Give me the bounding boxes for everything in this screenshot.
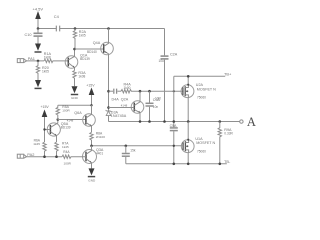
svg-text:4148: 4148: [67, 118, 74, 122]
MOSFET U2A lower: [181, 140, 194, 153]
svg-text:+15V: +15V: [86, 83, 95, 87]
transistor Q4A: [101, 42, 114, 55]
svg-text:R4A: R4A: [63, 150, 70, 154]
svg-text:+4.5V: +4.5V: [33, 7, 44, 12]
capacitor C6A: [149, 91, 151, 102]
ground arrow below C10: [35, 44, 41, 51]
wire input: [27, 60, 44, 62]
resistor R8A: [90, 132, 93, 146]
transistor Q6A: [83, 114, 96, 127]
node R7A bottom junction: [55, 155, 58, 158]
node Q1A collector junction: [73, 48, 76, 51]
zener D3A: [106, 110, 112, 112]
svg-text:D4A: D4A: [112, 97, 120, 101]
wire to Q4A base: [75, 48, 104, 50]
capacitor C2A: [161, 55, 169, 57]
svg-text:MOSFET N: MOSFET N: [196, 141, 215, 145]
resistor R5A: [56, 105, 59, 119]
transistor Q3A: [83, 150, 97, 164]
svg-text:10u: 10u: [159, 59, 165, 63]
power +V lift arrow: [89, 88, 95, 96]
node C6A top junction: [148, 90, 151, 93]
svg-text:+15V: +15V: [41, 105, 50, 109]
transistor Q1A: [65, 56, 78, 69]
svg-text:100R: 100R: [62, 108, 70, 112]
transistor Q5A: [47, 123, 60, 136]
svg-text:100R: 100R: [64, 162, 72, 166]
svg-text:GND: GND: [71, 96, 79, 100]
svg-text:TB+: TB+: [224, 71, 232, 76]
svg-text:Q4A: Q4A: [93, 41, 101, 45]
resistor R4A: [121, 90, 184, 93]
svg-text:BD140: BD140: [87, 50, 97, 54]
resistor R7A: [55, 142, 58, 157]
wire bottom-left rail: [27, 156, 62, 158]
svg-text:4401: 4401: [96, 151, 103, 155]
svg-text:C10: C10: [25, 33, 32, 37]
resistor R2A: [73, 29, 76, 50]
node gate-line left junction: [107, 90, 110, 93]
wire gate line: [109, 90, 114, 92]
svg-text:Q2A: Q2A: [121, 97, 129, 101]
svg-text:PA2: PA2: [27, 152, 34, 157]
wire top rail: [38, 28, 165, 30]
svg-text:C5A: C5A: [170, 124, 177, 128]
svg-text:1k00: 1k00: [124, 86, 131, 90]
svg-text:U2A: U2A: [196, 83, 204, 87]
svg-text:1k08: 1k08: [44, 55, 51, 59]
svg-text:2N100: 2N100: [96, 135, 105, 139]
svg-text:1k45: 1k45: [62, 145, 69, 149]
ground arrow below Q3A: [89, 168, 95, 175]
node C7A tap junction: [125, 145, 128, 148]
svg-text:TB-: TB-: [224, 159, 231, 164]
ground arrow below R3A: [72, 86, 78, 93]
transistor Q2A: [131, 101, 144, 114]
svg-text:0.33R: 0.33R: [224, 132, 233, 136]
wire output rail corner: [109, 121, 240, 123]
node output rail junctions: [139, 120, 142, 123]
svg-text:1k05: 1k05: [79, 34, 86, 38]
svg-text:75060: 75060: [197, 95, 206, 99]
svg-text:MOSFET N: MOSFET N: [197, 88, 216, 92]
svg-text:A: A: [247, 115, 256, 129]
node rail R2A junction: [74, 27, 77, 30]
resistor R1A: [44, 59, 68, 62]
node bottom rail junctions: [173, 163, 176, 166]
power +V top-left arrow: [37, 19, 39, 29]
node U1A drain junction: [187, 75, 190, 78]
input connector J1: [17, 59, 23, 63]
capacitor C10: [37, 29, 39, 33]
terminal A: [240, 120, 243, 123]
node Q2A base junction: [107, 106, 110, 109]
svg-text:4148: 4148: [121, 104, 128, 108]
svg-text:GND: GND: [88, 179, 96, 183]
svg-text:BD139: BD139: [80, 57, 90, 61]
svg-text:Q6A: Q6A: [74, 111, 82, 115]
node R6A bottom junction: [43, 155, 46, 158]
svg-text:PA1: PA1: [28, 56, 35, 61]
ground arrow below R20: [35, 80, 41, 87]
wire x174 vertical: [173, 76, 175, 127]
capacitor C7A: [125, 146, 127, 153]
MOSFET U1A upper: [181, 85, 194, 98]
svg-text:75060: 75060: [197, 149, 206, 153]
svg-text:C2A: C2A: [170, 52, 178, 56]
resistor R6A: [43, 142, 46, 157]
node Q6A emitter junction: [90, 145, 93, 148]
node x174 gate junction: [173, 90, 175, 92]
resistor R4A horizontal: [62, 155, 86, 158]
capacitor C4 in top rail: [56, 26, 59, 32]
wire lower gate line: [92, 145, 184, 147]
svg-text:1k45: 1k45: [33, 142, 40, 146]
node QB emitter junction: [107, 27, 110, 30]
resistor R3A: [73, 71, 76, 87]
svg-text:15k: 15k: [130, 148, 136, 152]
svg-text:10R: 10R: [155, 97, 162, 101]
node input junction: [37, 60, 40, 63]
resistor R20: [36, 61, 39, 80]
svg-text:1k05: 1k05: [42, 70, 49, 74]
wire to Q6A base: [58, 119, 86, 121]
capacitor C5A: [170, 127, 178, 129]
wire +rail upper right: [174, 75, 225, 77]
svg-text:BD139: BD139: [61, 126, 71, 130]
svg-text:10n: 10n: [153, 105, 159, 109]
svg-text:1k08: 1k08: [78, 74, 85, 78]
node Q5A collector junction: [57, 118, 60, 121]
node Q2A collector junction: [139, 90, 142, 93]
wire bottom rail: [126, 163, 227, 165]
svg-text:1N4745A: 1N4745A: [111, 114, 127, 118]
node top-left junction: [37, 27, 40, 30]
node x174 crossing: [173, 145, 175, 147]
wire mid horizontal: [58, 104, 92, 106]
input connector J2: [17, 154, 23, 158]
resistor R9A: [218, 122, 221, 164]
power +V mid arrow: [42, 110, 48, 118]
svg-text:C4: C4: [54, 14, 60, 19]
capacitor C3A in gate line: [114, 89, 117, 94]
wire C2A branch: [164, 29, 166, 56]
